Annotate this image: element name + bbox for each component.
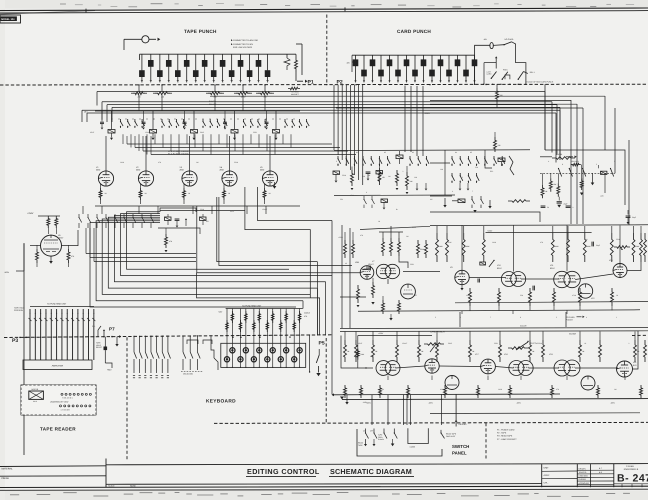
keyboard resistor KR12 [299, 309, 301, 336]
svg-text:4: 4 [586, 316, 587, 319]
svg-text:6: 6 [452, 190, 453, 193]
svg-text:1: 1 [150, 81, 151, 84]
card punch relay right wire [512, 42, 526, 85]
keyboard resistor KR7 [266, 309, 268, 336]
tube V13 [613, 264, 627, 278]
tube row 1 last ground [273, 186, 277, 189]
svg-text:20μF: 20μF [564, 203, 568, 206]
svg-text:SCHEMATIC DIAGRAM: SCHEMATIC DIAGRAM [330, 467, 412, 476]
punch magnet PM13 [231, 54, 233, 70]
svg-text:.1: .1 [402, 170, 403, 173]
reader down arrow [116, 337, 118, 344]
tube V4 2050 [222, 171, 237, 186]
resistor R-a [47, 216, 50, 228]
svg-text:5: 5 [336, 160, 337, 163]
svg-text:B- 247: B- 247 [617, 473, 648, 485]
mid logic resistor [165, 234, 168, 248]
svg-text:TO PUNCHING UNIT: TO PUNCHING UNIT [47, 303, 67, 306]
svg-text:VELO-CON: VELO-CON [183, 373, 194, 376]
svg-text:V6: V6 [345, 262, 347, 265]
riser to switch panel [331, 221, 333, 395]
keyboard contact K6 [161, 336, 163, 352]
svg-text:0: 0 [440, 81, 441, 84]
svg-text:.01: .01 [584, 342, 586, 345]
svg-text:CONNECTED TO 90V: CONNECTED TO 90V [233, 43, 254, 46]
svg-text:7 6 5 4 3 2 1: 7 6 5 4 3 2 1 [62, 396, 73, 399]
reader channel 3 [40, 309, 42, 360]
center to-right wires [403, 271, 440, 273]
relay cap R2 [143, 111, 145, 122]
wire stair 3 [102, 219, 310, 294]
upper right h-resistor 2 [571, 163, 581, 166]
tube V6 right cathode resistor [67, 249, 70, 263]
relay cluster bus dots [474, 84, 475, 85]
svg-text:7: 7 [415, 81, 416, 84]
card punch magnet CM1 [355, 55, 357, 59]
switch panel up arrow [455, 394, 457, 426]
svg-text:CLEAR: CLEAR [569, 332, 576, 335]
punch magnet PM6 [240, 54, 242, 60]
row A resistors upper [436, 233, 439, 262]
mid contact MC6 [123, 214, 125, 218]
svg-text:+90V: +90V [107, 369, 112, 372]
svg-text:APPROVED: APPROVED [579, 482, 590, 485]
aux cluster wires [430, 195, 452, 197]
svg-text:UNIT: UNIT [544, 467, 550, 470]
+20uF cap right [626, 215, 631, 217]
svg-text:TO PUNCHING UNIT: TO PUNCHING UNIT [242, 305, 262, 308]
V10 input coil [480, 262, 486, 265]
svg-text:7: 7 [204, 81, 205, 84]
svg-text:60 W: 60 W [33, 400, 37, 403]
reader channel 9 [72, 309, 74, 360]
reader channel 13 [93, 309, 95, 360]
row A lower bus [358, 310, 640, 311]
keyboard mid brackets [187, 340, 198, 344]
svg-text:4: 4 [578, 160, 579, 163]
tube V8 thyratron [401, 284, 416, 299]
svg-text:GROUND: GROUND [459, 423, 468, 426]
right half horizontals [430, 100, 571, 102]
reader channel 10 [77, 309, 79, 360]
row B bottom bus [342, 399, 648, 400]
card punch relay circuit wire [475, 45, 490, 84]
svg-text:1: 1 [616, 316, 617, 319]
R upper h-resistor [552, 157, 575, 160]
mid contact MC2 [87, 214, 89, 218]
svg-text:AMPLIFIER: AMPLIFIER [52, 364, 64, 367]
svg-text:4: 4 [177, 81, 178, 84]
upper right contacts [559, 169, 562, 177]
svg-text:K3: K3 [412, 151, 414, 154]
svg-text:3: 3 [381, 81, 382, 84]
row B left resistors [344, 385, 347, 398]
svg-text:0: 0 [141, 81, 142, 84]
tape punch feed arrow [149, 38, 156, 40]
svg-text:2050: 2050 [180, 168, 184, 171]
row A mid bus segment [486, 232, 592, 234]
svg-text:P1 & P2 NOT SHOWN: P1 & P2 NOT SHOWN [168, 153, 189, 156]
wire riser 210 [160, 210, 245, 212]
interconnect bus left elbows [96, 92, 98, 106]
card punch pullup resistor [496, 88, 499, 102]
punch magnet PM14 [249, 54, 251, 70]
svg-text:K4: K4 [455, 151, 457, 154]
tube V2 cathode resistor [140, 184, 142, 188]
interconnect bus bundle [97, 91, 545, 93]
card punch magnet CM4 [406, 55, 408, 59]
wire stair 1 [90, 223, 296, 307]
svg-text:P1: P1 [308, 79, 314, 85]
row A pot [614, 246, 630, 249]
svg-text:ENDORSED B: ENDORSED B [624, 468, 639, 471]
tape punch resistor taps [138, 85, 140, 92]
svg-text:K2: K2 [384, 151, 386, 154]
switch read tape [365, 429, 367, 434]
reader channel 12 [88, 309, 90, 360]
svg-text:V6B: V6B [355, 261, 359, 264]
reader right arrow [119, 335, 121, 338]
svg-text:TAPE READER: TAPE READER [40, 426, 76, 431]
svg-text:20μF: 20μF [632, 216, 636, 219]
svg-text:2: 2 [372, 81, 373, 84]
svg-text:+250V: +250V [338, 236, 344, 239]
keyboard contact M3 [196, 336, 198, 352]
mid contact MC4 [105, 214, 107, 218]
keyboard resistor KR1 [226, 309, 228, 336]
key switch KL1 [226, 336, 228, 368]
svg-text:+250V: +250V [487, 229, 493, 232]
svg-text:3: 3 [168, 81, 169, 84]
svg-text:7: 7 [490, 316, 491, 319]
svg-text:CPL.: CPL. [544, 482, 549, 485]
center circuit plate resistors [382, 238, 385, 256]
relay band D resistor [494, 137, 497, 152]
aux relay cluster [458, 199, 465, 203]
V10 input arrow [489, 260, 494, 267]
keyboard key block outline [221, 343, 306, 367]
svg-text:1: 1 [364, 81, 365, 84]
card punch magnet CM7 [457, 55, 459, 59]
relay contact drop wires [122, 134, 124, 144]
svg-text:-105V: -105V [366, 402, 372, 405]
svg-text:V2 & V3 NOT SHOWN: V2 & V3 NOT SHOWN [168, 150, 189, 153]
mid contact MC7 [132, 214, 134, 218]
relay cap R4 [224, 111, 226, 122]
svg-text:6SN7: 6SN7 [90, 131, 94, 134]
relay band lower coil [381, 199, 388, 202]
svg-text:3: 3 [466, 81, 467, 84]
svg-text:SWITCH: SWITCH [452, 444, 469, 449]
svg-text:RESET: RESET [96, 346, 103, 349]
keyboard block right wire [309, 335, 311, 372]
svg-text:5965: 5965 [200, 131, 204, 134]
tube V20 rect [581, 376, 595, 390]
border top line [0, 8, 648, 11]
svg-text:6SN7: 6SN7 [230, 210, 234, 213]
wire stair 4 [108, 217, 317, 288]
row B top bus [340, 327, 648, 330]
tape reader note TO PUNCHING UNIT [30, 306, 94, 308]
lower interconnect lines [127, 143, 332, 145]
relay band tall resistor [378, 168, 381, 185]
svg-text:KEYBOARD: KEYBOARD [206, 399, 236, 405]
svg-text:UNDERNEATH VIEW: UNDERNEATH VIEW [50, 401, 69, 404]
wire stair 5 [114, 215, 325, 281]
title block left material box [0, 465, 106, 468]
svg-text:K5: K5 [470, 151, 472, 154]
relay band C resistor [406, 172, 409, 190]
switch one shot [440, 430, 442, 433]
svg-text:9: 9 [432, 81, 433, 84]
svg-text:TRACED: TRACED [579, 471, 587, 474]
svg-text:2.2M: 2.2M [380, 388, 384, 391]
dashed divider keyboard (vertical) [126, 337, 128, 461]
tube V19 dual [554, 360, 570, 376]
tape reader motor box (dashed) [21, 385, 96, 415]
svg-text:6SN7: 6SN7 [497, 267, 502, 270]
relay band bus [334, 149, 530, 152]
tube V10 dual [501, 272, 516, 287]
svg-text:-105V: -105V [4, 271, 10, 274]
tube V6 left grid resistor [36, 249, 39, 263]
keyboard contact K3 [144, 336, 146, 352]
tube V4 grid lead [229, 186, 231, 206]
switch panel bus drops [371, 395, 373, 426]
relay band group A resistor [351, 170, 354, 186]
row B bottom bus 2 [430, 412, 640, 415]
tube V5 2050 [262, 171, 277, 186]
keyboard space bar contact [211, 336, 214, 358]
punch magnet PM10 [177, 54, 179, 70]
key switch KL2 [239, 336, 241, 368]
key switch KL4 [266, 335, 268, 367]
scan shading top strip [0, 0, 648, 9]
row B pot TO PT-4 [516, 342, 528, 350]
key switch KU4 [272, 335, 274, 367]
svg-text:CLEAR: CLEAR [520, 324, 527, 327]
keyboard tube ground bus arrow [340, 397, 344, 400]
tube V6B resistors [344, 240, 347, 258]
switch panel feed bus [332, 393, 560, 396]
keyboard resistor KR6 [258, 309, 260, 336]
svg-text:MAGNET: MAGNET [291, 93, 300, 96]
amplifier box [23, 360, 92, 370]
card punch relay up arrow [495, 56, 497, 58]
svg-text:P5: P5 [319, 341, 325, 347]
svg-text:MATERIAL: MATERIAL [2, 467, 14, 470]
reader channel 8 [66, 309, 68, 360]
relay coil R3 [193, 111, 195, 130]
svg-text:PASSED: PASSED [579, 478, 587, 481]
svg-text:5: 5 [398, 81, 399, 84]
card punch long verticals [404, 86, 406, 152]
relay band D contact arm [509, 156, 514, 175]
relay contacts R3 [202, 119, 204, 122]
relay band coil C [396, 155, 403, 159]
card punch relay coil [490, 43, 493, 49]
key switch KL6 [293, 335, 295, 367]
svg-text:2050: 2050 [96, 168, 100, 171]
svg-text:-105V: -105V [516, 402, 522, 405]
svg-text:+250V: +250V [378, 332, 384, 335]
svg-text:.01: .01 [368, 174, 370, 177]
card punch magnet CM14 [465, 55, 467, 70]
keyboard contact K4 [150, 336, 152, 352]
svg-text:+250V: +250V [424, 112, 431, 115]
scan shading bottom strip [0, 491, 648, 500]
scan edge marks top [60, 4, 634, 7]
card punch magnet CM3 [389, 55, 391, 59]
svg-text:0: 0 [355, 81, 356, 84]
tube V2 plate lead [145, 136, 147, 171]
mid long horizontals [86, 253, 196, 255]
punch magnet PM15 [267, 54, 269, 70]
svg-text:+250V: +250V [27, 212, 34, 215]
mid contact MC5 [114, 214, 116, 218]
svg-text:2: 2 [614, 160, 615, 163]
wire stair 6 [121, 214, 333, 276]
relay coil R2 [152, 111, 154, 130]
svg-text:EDITING CONTROL: EDITING CONTROL [247, 467, 320, 476]
relay band D coil [498, 158, 505, 162]
tape punch right wires [301, 44, 303, 75]
svg-text:MODEL 104: MODEL 104 [1, 18, 15, 21]
tube V18 dual [509, 361, 524, 376]
border bottom line [0, 486, 648, 487]
row A cathode resistors [469, 288, 472, 306]
center right resistors [417, 240, 420, 258]
card punch magnet CM9 [380, 55, 382, 70]
relay band group D contacts lower [451, 173, 453, 176]
svg-text:7: 7 [472, 190, 473, 193]
svg-text:FOR LOW VOLTAGE: FOR LOW VOLTAGE [233, 46, 253, 49]
junction dots scattered [138, 84, 139, 85]
relay row terminal marks [112, 119, 113, 120]
svg-text:B+: B+ [396, 208, 398, 211]
wire stair 7 [127, 212, 289, 269]
svg-text:SCALE: SCALE [108, 485, 115, 488]
dashed divider switch panel (vertical) [485, 423, 487, 459]
svg-text:V12: V12 [591, 297, 594, 300]
V10 coupling cap [477, 279, 479, 283]
svg-text:4: 4 [267, 81, 268, 84]
punch magnet PM8 [141, 54, 143, 70]
svg-text:1: 1 [449, 81, 450, 84]
row A interconnect wires [469, 277, 506, 279]
relay contacts R1 [120, 119, 122, 122]
tube V1 grid lead [105, 186, 107, 206]
svg-text:2: 2 [159, 81, 160, 84]
reader channel 7 [61, 309, 63, 360]
tube V5 grid lead [269, 186, 271, 206]
svg-text:5: 5 [186, 81, 187, 84]
tube V2 grid lead [145, 186, 147, 206]
svg-text:8: 8 [520, 316, 521, 319]
keyboard tube left wires [341, 336, 373, 369]
punch magnet PM2 [168, 54, 170, 60]
relay band C resistor 2 [396, 170, 399, 186]
relay contacts R4 [243, 119, 245, 122]
row A plate leads [461, 226, 463, 271]
reader channel 1 [29, 309, 31, 360]
svg-text:NO CARD: NO CARD [505, 38, 514, 41]
center cathode resistors [372, 282, 375, 298]
svg-text:2D21: 2D21 [410, 263, 414, 266]
-105V rail [23, 243, 25, 455]
svg-text:250: 250 [161, 96, 164, 99]
dashed P5 drop (vertical) [325, 338, 327, 423]
upper right circuit box [545, 150, 625, 205]
svg-text:2D21: 2D21 [494, 342, 498, 345]
punch magnet PM7 [258, 54, 260, 60]
switch tape feed [383, 429, 385, 434]
punch magnet PM3 [186, 54, 188, 60]
row A grounds [461, 311, 463, 315]
dashed switch panel bus (horizontal) [214, 422, 648, 423]
svg-text:ASSY.: ASSY. [544, 474, 551, 477]
svg-text:2: 2 [249, 81, 250, 84]
relay cap R3 [184, 111, 186, 122]
relay band group B cap [366, 171, 371, 173]
upper right resistors [541, 185, 544, 198]
svg-text:PUNCH: PUNCH [378, 438, 385, 441]
svg-text:6: 6 [406, 81, 407, 84]
P5 contact [318, 349, 320, 355]
tape punch feed clutch circle [142, 36, 149, 43]
tube V6 ground [50, 256, 52, 261]
relay coil R4 [234, 111, 236, 130]
punch magnet PM9 [159, 54, 161, 70]
long vertical wires right half [570, 100, 572, 224]
tube V21 [617, 361, 633, 377]
svg-text:2: 2 [457, 81, 458, 84]
svg-text:.1: .1 [572, 206, 573, 209]
svg-text:8: 8 [213, 81, 214, 84]
upper right grounds [591, 183, 595, 186]
svg-text:NONE: NONE [130, 485, 136, 488]
svg-text:20μF: 20μF [596, 244, 600, 247]
relay contacts R5 [284, 119, 286, 122]
row B interconnect wires [395, 366, 424, 368]
upper right dashed row [540, 172, 615, 174]
reader channel 6 [56, 309, 58, 360]
svg-text:2D21: 2D21 [253, 131, 257, 134]
keyboard resistor KR3 [239, 309, 241, 336]
tube V3 cathode resistor [183, 184, 185, 188]
wire long cross 272 [197, 206, 360, 273]
tube row 1 bottom bus [95, 205, 300, 207]
svg-text:K1: K1 [356, 151, 358, 154]
svg-text:-105V: -105V [428, 402, 434, 405]
dashed divider P1/P2 (vertical) [326, 15, 328, 86]
dashed connector bus P1-P2 (horizontal) [0, 83, 648, 86]
upper right contact pair lines [597, 165, 599, 168]
relay band group B contacts [362, 156, 364, 159]
tube V1 2050 [98, 171, 113, 186]
svg-text:COMB: COMB [410, 446, 416, 449]
tube V6 6SN7 [41, 235, 62, 256]
svg-text:DRAWN: DRAWN [579, 467, 587, 470]
switch comb [408, 428, 428, 443]
keyboard resistor comb bracket [226, 308, 303, 310]
card punch magnet CM11 [414, 55, 416, 70]
mid logic cluster cap [175, 218, 180, 220]
row A top bus [430, 224, 648, 227]
key switch KU6 [299, 335, 301, 367]
svg-text:.1: .1 [628, 342, 629, 345]
tube V5 plate lead [269, 136, 271, 171]
